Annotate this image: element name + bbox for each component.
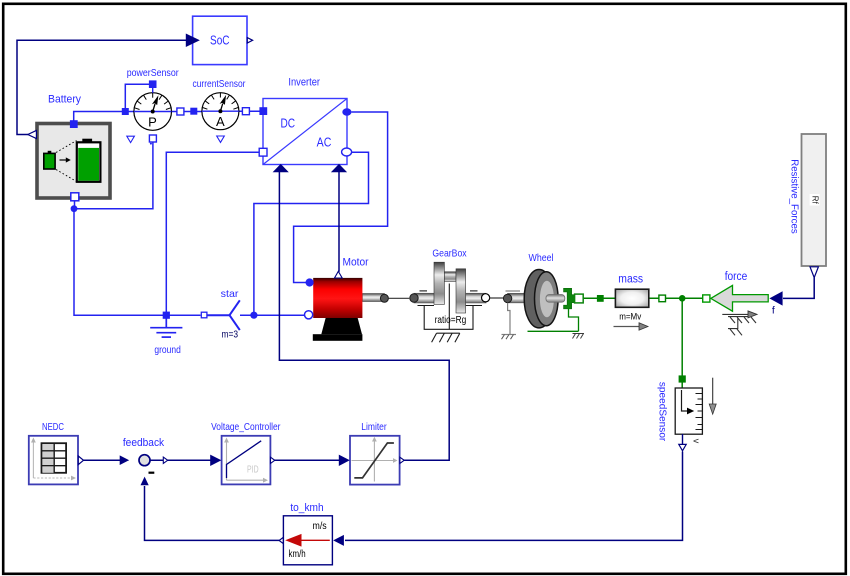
input arrow SoC.u <box>186 34 198 46</box>
wire mass to force flange <box>649 297 703 299</box>
wire junction to speedSensor <box>681 298 683 388</box>
limiter axes <box>352 440 395 482</box>
wheel green support <box>569 308 579 331</box>
svg-text:PID: PID <box>247 464 259 475</box>
svg-text:Limiter: Limiter <box>361 421 387 433</box>
pin currentSensor right <box>242 108 249 115</box>
junction mass-force-speedSensor node <box>679 295 686 302</box>
svg-text:Inverter: Inverter <box>288 77 320 89</box>
wire battery.SoC to SoC block (signal) <box>17 40 187 134</box>
output powerSensor.power arrow <box>127 136 135 142</box>
to_kmh red arrow <box>300 539 330 541</box>
battery icon arrow <box>60 159 67 161</box>
block to_kmh <box>279 502 344 565</box>
sensor powerSensor <box>122 67 184 144</box>
component Wheel <box>502 252 585 339</box>
svg-text:ground: ground <box>154 344 181 356</box>
svg-text:Rf: Rf <box>810 196 819 205</box>
pin inverter AC+ <box>342 108 351 115</box>
wheel tire <box>524 270 554 328</box>
limiter saturation curve <box>354 443 394 478</box>
output Limiter.y arrow <box>400 457 404 463</box>
pin motor plug_n <box>305 311 313 319</box>
battery icon small cell <box>48 151 52 154</box>
wheel gray support <box>502 291 521 335</box>
pin mass flange_b <box>659 295 666 302</box>
component mass <box>597 273 666 330</box>
svg-text:feedback: feedback <box>123 437 165 449</box>
svg-text:f: f <box>772 304 775 316</box>
svg-text:v: v <box>692 439 702 444</box>
block NEDC <box>29 421 84 484</box>
svg-text:Wheel: Wheel <box>529 252 554 264</box>
output to_kmh.y arrow <box>279 537 283 543</box>
svg-text:SoC: SoC <box>210 33 230 47</box>
svg-text:star: star <box>221 288 239 300</box>
svg-text:AC: AC <box>317 135 332 149</box>
input inverter gate2 triangle <box>331 164 347 172</box>
pin battery.p top <box>70 120 78 128</box>
wire inverter DC- to ground bus <box>166 152 262 315</box>
wire star to motor plug_n <box>240 314 306 316</box>
gearbox left gear <box>434 262 444 304</box>
wire inverter AC+ to motor plug_p <box>294 112 388 283</box>
NEDC table <box>42 443 67 473</box>
junction battery.n node <box>71 205 78 212</box>
gearbox right gear <box>456 269 466 313</box>
output Resistive_Forces triangle <box>810 267 818 278</box>
controller axes <box>227 441 265 480</box>
output arrow SoC.y <box>247 38 252 43</box>
wire currentSensor to inverter DC+ <box>239 110 263 112</box>
pin powerSensor right <box>177 108 184 115</box>
svg-text:Motor: Motor <box>343 256 369 268</box>
component star <box>201 288 240 340</box>
svg-text:m=3: m=3 <box>222 329 239 340</box>
wheel hub shaft <box>546 295 565 303</box>
wire battery.n down to ground bus <box>74 209 201 316</box>
junction ground node <box>163 312 170 319</box>
output Voltage_Controller.y arrow <box>271 457 275 463</box>
wire inverter AC- to ground junction <box>254 152 369 315</box>
pin powerSensor bottom <box>149 135 156 142</box>
NEDC axes <box>33 441 72 478</box>
wire battery.p to powerSensor (electrical) <box>74 112 135 125</box>
motor shaft <box>362 294 384 302</box>
pin star plug <box>201 312 207 318</box>
svg-text:DC: DC <box>281 116 296 130</box>
wire feedback to Voltage_Controller <box>150 459 211 461</box>
input Voltage_Controller.u arrow <box>210 455 221 466</box>
svg-text:force: force <box>725 271 748 283</box>
force support icon <box>722 314 756 335</box>
wire powerSensor top voltage tap <box>125 84 151 111</box>
output speedSensor.v triangle <box>682 434 684 445</box>
svg-text:A: A <box>216 114 225 129</box>
pin inverter AC- <box>342 148 352 156</box>
svg-text:ratio=Rg: ratio=Rg <box>435 315 467 326</box>
block Voltage_Controller <box>210 421 281 484</box>
motor base trapezoid <box>321 306 362 334</box>
pin inverter DC- <box>259 148 267 156</box>
pin force flange <box>703 295 710 302</box>
gearbox support bracket <box>418 284 483 330</box>
svg-text:m=Mv: m=Mv <box>619 312 641 323</box>
svg-text:speedSensor: speedSensor <box>657 382 669 442</box>
svg-text:Resistive_Forces: Resistive_Forces <box>789 159 800 234</box>
svg-text:km/h: km/h <box>289 549 306 560</box>
wire inverter gate2 to motor control <box>338 172 340 272</box>
block Battery <box>28 93 110 201</box>
svg-text:P: P <box>148 115 157 130</box>
motor body <box>313 278 362 318</box>
component GearBox <box>410 247 504 342</box>
input inverter gate1 triangle <box>273 164 289 172</box>
block Resistive_Forces <box>789 134 827 278</box>
battery icon dotted rays <box>56 141 77 153</box>
wheel green clamp <box>564 288 576 309</box>
input feedback.u2 arrow <box>141 477 149 486</box>
output currentSensor.i arrow <box>217 136 225 142</box>
block Limiter <box>339 421 404 484</box>
sensor currentSensor <box>190 78 249 142</box>
svg-text:NEDC: NEDC <box>42 421 64 433</box>
gearbox ground hatch <box>432 333 460 342</box>
pin wheel flangeT <box>575 294 584 303</box>
output feedback.y arrow <box>163 457 167 463</box>
svg-text:powerSensor: powerSensor <box>127 67 179 79</box>
pin inverter DC+ <box>259 107 267 115</box>
pin battery.SoC output triangle <box>28 130 37 138</box>
block Motor <box>305 256 410 340</box>
svg-text:currentSensor: currentSensor <box>193 78 246 90</box>
wire powerSensor to currentSensor <box>171 111 203 113</box>
input to_kmh.u arrow <box>333 535 344 546</box>
gearbox hub bar <box>444 272 456 282</box>
wheel axle shaft <box>508 293 528 302</box>
svg-text:m/s: m/s <box>313 521 327 532</box>
pin powerSensor top <box>149 80 157 88</box>
pin battery.n bottom <box>71 193 79 201</box>
svg-text:mass: mass <box>618 273 643 285</box>
pin gearbox flange_b <box>482 294 490 302</box>
force big arrow <box>711 285 768 311</box>
sensor speedSensor <box>657 375 717 450</box>
component feedback <box>120 437 168 485</box>
powerSensor icon dot <box>150 143 152 145</box>
wire Resistive_Forces to force.f <box>783 278 814 299</box>
pin mass flange_a <box>597 295 604 302</box>
junction star-motor node <box>250 312 257 319</box>
input force.f triangle <box>769 291 782 305</box>
wire to_kmh to feedback minus input <box>145 486 281 540</box>
block SoC <box>186 16 252 64</box>
wire powerSensor bottom tap to battery.n <box>75 143 153 209</box>
pin currentSensor left <box>190 108 197 115</box>
pin powerSensor left <box>122 108 129 115</box>
wire speedSensor to to_kmh <box>345 452 683 541</box>
feedback minus sign <box>149 472 155 474</box>
wheel green road line <box>528 330 579 332</box>
wire wheel flange to mass (green mechanical) <box>578 297 615 299</box>
mass direction arrow <box>614 326 641 328</box>
svg-text:Voltage_Controller: Voltage_Controller <box>211 421 281 433</box>
wire limiter output to inverter gate (signal) <box>279 172 449 460</box>
controller PID curve <box>227 441 262 478</box>
block Inverter <box>259 77 351 173</box>
speedSensor gray arrow <box>712 378 714 405</box>
wire Voltage_Controller to Limiter <box>275 459 340 461</box>
svg-text:to_kmh: to_kmh <box>290 502 323 514</box>
component force <box>703 271 783 335</box>
speedSensor pin green square <box>679 375 686 382</box>
wire NEDC to feedback <box>84 459 121 461</box>
svg-text:Battery: Battery <box>48 93 81 105</box>
battery icon big cell <box>82 139 92 143</box>
pin motor control triangle <box>335 271 343 278</box>
output NEDC.y triangle <box>78 456 83 465</box>
input Limiter.u arrow <box>339 455 350 466</box>
gearbox right shaft <box>465 293 486 303</box>
component ground <box>150 315 182 356</box>
gearbox left shaft <box>414 293 434 303</box>
input feedback.u1 arrow <box>120 455 130 465</box>
pin motor plug_p <box>306 278 314 286</box>
svg-text:GearBox: GearBox <box>432 247 467 259</box>
